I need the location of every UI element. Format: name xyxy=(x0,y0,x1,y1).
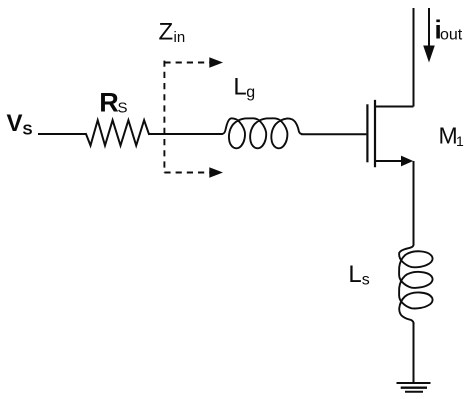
wire Vs to Rs xyxy=(38,133,86,135)
M1 source arrowhead xyxy=(401,156,413,167)
drain wire up xyxy=(413,8,415,107)
dashed vertical line xyxy=(163,61,165,173)
ground bar 1 xyxy=(397,382,431,384)
svg-text:out: out xyxy=(440,27,463,44)
svg-text:1: 1 xyxy=(456,133,464,149)
i_out arrow line xyxy=(428,8,430,48)
svg-text:V: V xyxy=(7,110,23,137)
wire Ls to ground xyxy=(413,323,415,383)
i_out arrowhead xyxy=(423,46,435,63)
svg-text:L: L xyxy=(348,261,361,288)
resistor R_S xyxy=(86,120,149,145)
M1 source lead xyxy=(375,160,402,162)
dashed Zin boundary xyxy=(164,61,209,173)
source wire down xyxy=(413,161,415,245)
wire Lg to gate xyxy=(301,133,366,135)
transistor M1 gate bar xyxy=(366,105,368,161)
ground bar 3 xyxy=(405,391,423,393)
svg-text:g: g xyxy=(246,84,255,101)
svg-text:M: M xyxy=(439,123,458,149)
svg-text:in: in xyxy=(174,29,186,46)
M1 drain lead xyxy=(375,106,414,108)
wire Rs to Lg xyxy=(149,133,223,135)
svg-text:S: S xyxy=(118,100,128,117)
svg-text:L: L xyxy=(233,74,246,101)
svg-text:S: S xyxy=(23,122,33,139)
ground bar 2 xyxy=(401,387,427,389)
dashed top arrow shaft xyxy=(164,62,209,64)
svg-text:s: s xyxy=(362,272,370,289)
inductor Ls xyxy=(399,245,432,323)
dashed bottom arrow shaft xyxy=(164,172,209,174)
Zin top arrowhead xyxy=(209,57,223,68)
svg-text:Z: Z xyxy=(159,19,174,46)
transistor M1 channel bar xyxy=(374,101,376,166)
Zin bottom arrowhead xyxy=(209,167,223,178)
inductor Lg xyxy=(223,118,302,148)
svg-text:R: R xyxy=(99,87,119,117)
